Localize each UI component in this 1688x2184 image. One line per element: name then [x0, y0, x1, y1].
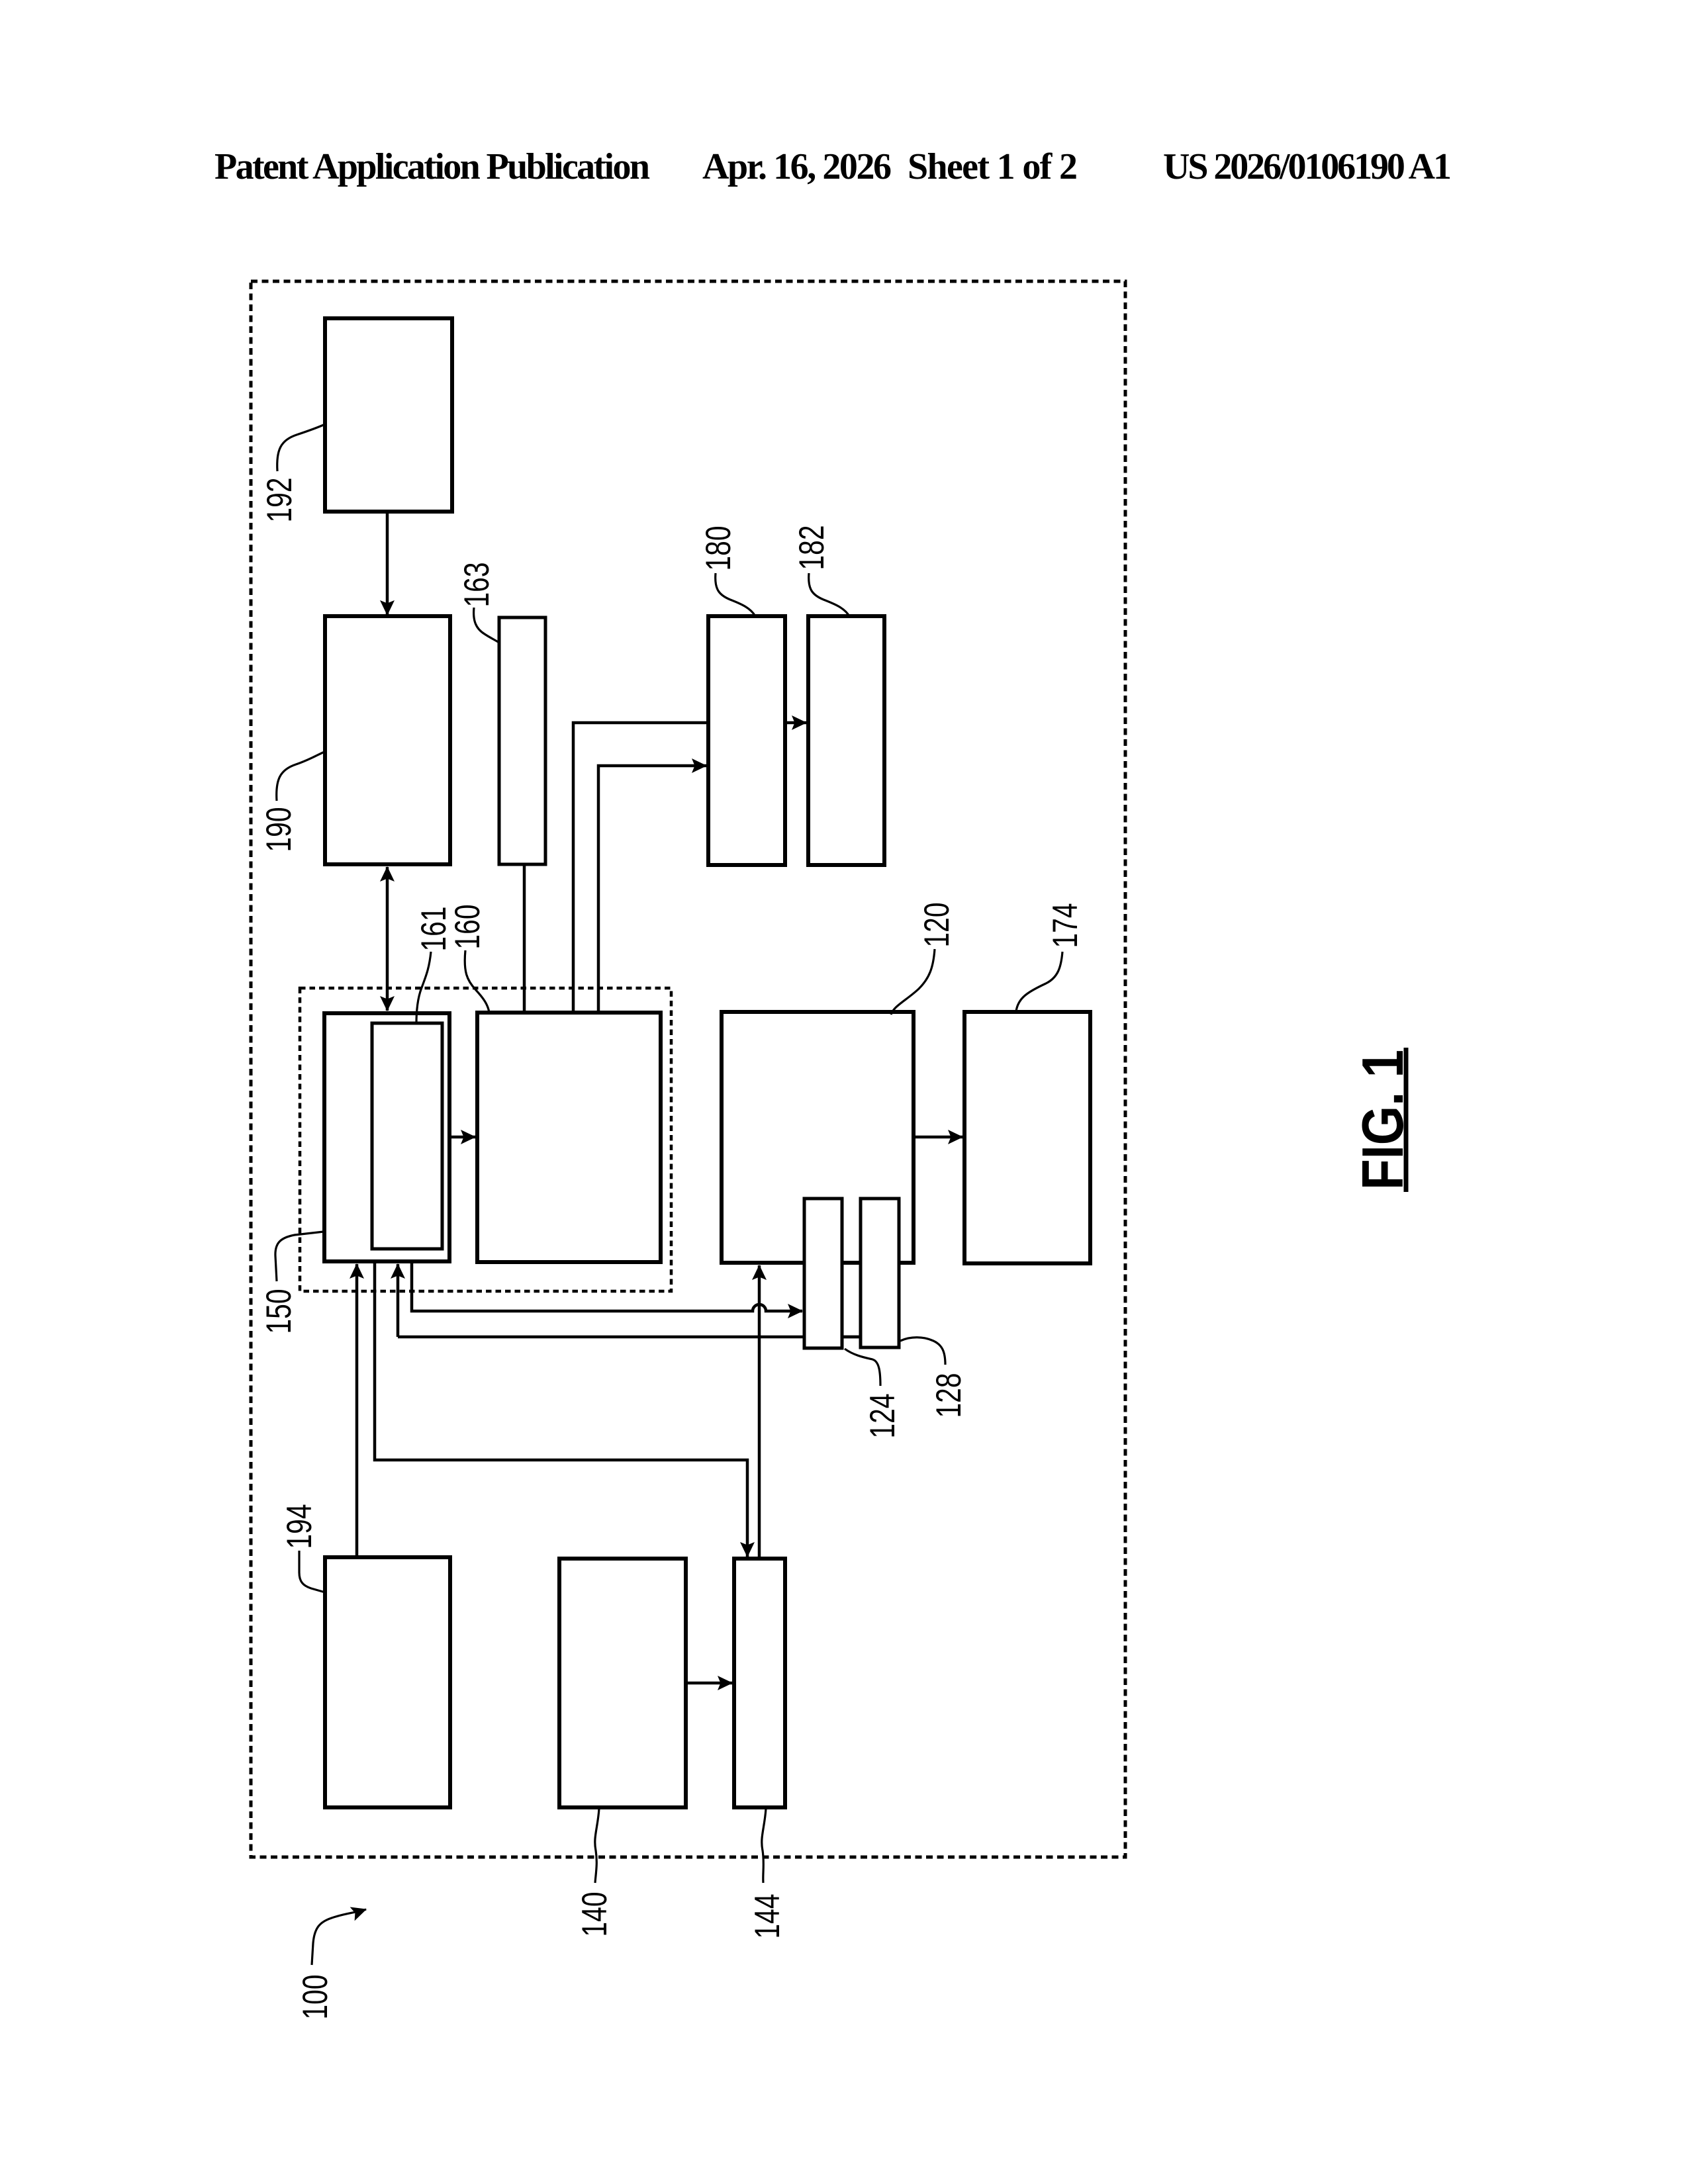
label 150 — [259, 1232, 324, 1334]
svg-text:Apr. 16, 2026: Apr. 16, 2026 — [702, 146, 892, 187]
label 190 — [259, 752, 324, 852]
box 180 — [708, 616, 785, 865]
svg-text:180: 180 — [699, 526, 738, 571]
svg-text:160: 160 — [448, 905, 487, 950]
label 180 — [699, 526, 755, 617]
svg-text:163: 163 — [457, 563, 496, 608]
box 144 — [734, 1559, 785, 1807]
wire: 144 up to 120 — [758, 1265, 761, 1559]
dashed box 150 — [300, 988, 671, 1291]
box 182 — [808, 616, 884, 865]
box 161 container — [324, 1013, 449, 1261]
svg-text:Sheet 1 of 2: Sheet 1 of 2 — [908, 146, 1078, 187]
wire: 163 down to 160 — [523, 864, 526, 1013]
wire: segment between 124 and 128 (on top) — [842, 1336, 861, 1339]
wire: arrow 192 to 190 — [386, 513, 389, 615]
svg-text:190: 190 — [259, 807, 299, 852]
box 140 — [559, 1559, 686, 1807]
label 192 — [260, 424, 325, 523]
wire: horizontal from 124 to elbow at 601 — [398, 1336, 804, 1339]
label 144 — [748, 1809, 787, 1939]
svg-text:150: 150 — [259, 1289, 299, 1334]
wire: 150 box down right and down into 144 — [375, 1261, 747, 1557]
box 194 — [325, 1557, 450, 1807]
svg-text:US 2026/0106190 A1: US 2026/0106190 A1 — [1163, 146, 1452, 187]
label 174 — [1016, 903, 1085, 1012]
wire: 160 up to 180 (upper, no arrow) — [573, 723, 708, 1013]
svg-text:182: 182 — [792, 525, 831, 570]
label 182 — [792, 525, 849, 617]
box 190 — [325, 616, 450, 864]
svg-text:192: 192 — [260, 478, 299, 523]
label 161 — [414, 907, 453, 1024]
wire: 124/128 up into 150 box — [397, 1264, 400, 1337]
svg-text:124: 124 — [863, 1394, 902, 1439]
box 124 — [804, 1199, 842, 1348]
svg-text:194: 194 — [280, 1504, 319, 1549]
svg-text:140: 140 — [575, 1892, 614, 1937]
label 160 — [448, 905, 489, 1013]
label 194 — [280, 1504, 325, 1593]
wire: arrow 140 to 144 — [686, 1682, 732, 1685]
wire: arrow 180 to 182 — [785, 721, 806, 725]
box 120 — [722, 1012, 914, 1263]
box 192 — [325, 318, 452, 512]
label 163 — [457, 563, 499, 643]
wire: double arrow 190 to 150 box — [386, 867, 389, 1011]
svg-text:144: 144 — [748, 1894, 787, 1939]
box 174 — [964, 1012, 1090, 1263]
outer dashed border of system 100 — [251, 281, 1125, 1857]
svg-text:120: 120 — [917, 903, 957, 948]
svg-text:Patent Application Publication: Patent Application Publication — [214, 146, 650, 187]
wire: 160 up to 180 with arrow (lower) — [598, 766, 706, 1013]
label 120 — [891, 903, 957, 1015]
box 128 — [861, 1199, 899, 1347]
wire: arrow 194 up to 150 box — [355, 1264, 359, 1557]
box 160 — [477, 1013, 661, 1262]
wire: segment between 124 and 128 — [842, 1336, 861, 1339]
svg-text:128: 128 — [929, 1373, 968, 1418]
wire: 150 box to 124 with hop over 144-120 wire — [412, 1261, 802, 1311]
label 124 — [845, 1349, 902, 1439]
label 100 with arrow — [296, 1909, 366, 2020]
box 163 — [499, 617, 545, 864]
label 128 — [900, 1338, 968, 1418]
label 140 — [575, 1809, 614, 1937]
svg-text:174: 174 — [1046, 903, 1085, 948]
wire: arrow 161-box to 160 — [449, 1136, 475, 1139]
box 161 inner — [372, 1023, 442, 1249]
svg-text:100: 100 — [296, 1975, 335, 2020]
FIG. 1 caption — [1350, 1048, 1415, 1192]
wire: arrow 120 to 174 — [914, 1136, 962, 1139]
